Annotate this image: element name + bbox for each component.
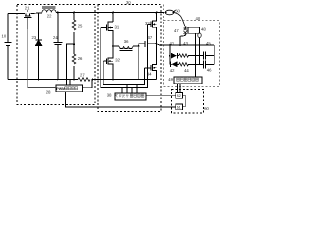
svg-text:33: 33 [145,21,150,26]
svg-text:28: 28 [46,89,51,94]
svg-text:41: 41 [170,41,175,46]
wire PWM bottom to box51 [66,92,176,107]
dashed box 30 (inverter) [98,5,161,112]
dashed box 40 (lamp unit) [164,21,219,87]
svg-text:26: 26 [78,56,83,61]
svg-text:23: 23 [32,35,37,40]
svg-text:32: 32 [115,58,120,63]
wire box38 to box52 [146,94,176,96]
lamp 47 [184,26,188,35]
output wire to lamp [157,44,215,45]
wire top rail [8,13,25,15]
svg-text:51: 51 [177,105,181,109]
capacitor C24 [57,13,59,43]
svg-text:27: 27 [80,73,85,78]
resistor R27 [78,78,90,82]
bridge control box 38 [115,93,146,100]
resistor R26 [73,45,75,55]
svg-text:42: 42 [170,68,175,73]
lamp bottom wire [180,36,185,46]
text voltage detect circuit (電圧検出回路) [177,78,199,81]
node T36 right / drop wire [138,45,140,47]
text PWM control circuit (PWM制御回路) [56,87,77,91]
svg-text:50: 50 [175,8,180,13]
resistor R25 [73,13,75,21]
wire PWM right to rail [83,80,93,88]
svg-text:60: 60 [204,106,209,111]
svg-text:25: 25 [78,24,83,29]
inductor L22 [42,10,56,13]
svg-text:31: 31 [115,25,120,30]
capacitor C46 [202,60,204,68]
box49 down stubs [177,84,179,93]
svg-text:36: 36 [124,39,129,44]
mosfet Q31 [112,12,114,14]
svg-text:34: 34 [147,72,152,77]
wire 52-51 link [182,95,185,107]
svg-text:49: 49 [168,77,173,82]
lamp envelope 48 [188,27,200,33]
diode D23 [38,13,40,40]
svg-text:37: 37 [148,35,153,40]
dashed box 20 (converter) [17,5,95,105]
diode D41 [171,53,177,59]
capacitor C37 [139,43,145,45]
text bridge control circuit (ブリッジ制御回路) [115,94,144,98]
gate drive manifold [101,24,148,87]
sense wire to box49 [195,34,197,78]
svg-text:48: 48 [201,27,206,32]
svg-text:30: 30 [126,0,131,5]
svg-text:10: 10 [2,34,7,39]
wire connector to lamp top [174,13,185,27]
ladder right vertical [213,45,215,64]
svg-text:46: 46 [207,68,212,73]
wire gate21 to PWM [28,29,56,88]
svg-text:47: 47 [174,28,179,33]
svg-text:40: 40 [196,16,201,21]
dashed box 60 (controller) [172,90,204,114]
box 49 voltage detect [174,77,202,84]
dashed edge extension box40 left [163,5,165,21]
transistor Q21 [25,14,27,16]
mosfet Q32 [112,45,114,47]
box 51 [176,104,183,110]
resistor R43 [179,54,189,57]
label 50 lead arrow [174,10,177,13]
wire PWM stub up [69,80,71,86]
node C24 bottom [57,79,59,81]
wire oval down through rows [199,45,201,64]
svg-text:PWM: PWM [56,87,65,91]
svg-text:44: 44 [184,68,189,73]
transformer T36 winding [113,45,119,47]
svg-text:21: 21 [25,6,30,11]
node R26 bottom [73,79,75,81]
PWM box 28 [56,85,83,92]
svg-text:52: 52 [177,94,181,98]
diode D42 [170,62,172,68]
mosfet Q34 [156,43,158,45]
capacitor C45 [202,52,204,60]
node R25 top [73,12,75,14]
node after inductor [57,12,59,14]
tap wire to PWM [67,44,75,85]
transformer T36 core [120,48,133,50]
bottom rail [8,79,78,81]
box 52 [176,93,183,99]
svg-text:45: 45 [206,41,211,46]
connector 50 ellipse [165,10,174,15]
bridge box pins [121,88,123,94]
resistor R44 [179,63,189,66]
ladder left vertical [169,45,171,64]
svg-text:43: 43 [183,41,188,46]
node D23 bottom [38,79,40,81]
battery 10 [7,14,9,43]
mosfet Q33 [156,12,158,14]
svg-text:38: 38 [107,92,112,97]
svg-text:24: 24 [53,35,58,40]
svg-text:22: 22 [47,14,52,19]
